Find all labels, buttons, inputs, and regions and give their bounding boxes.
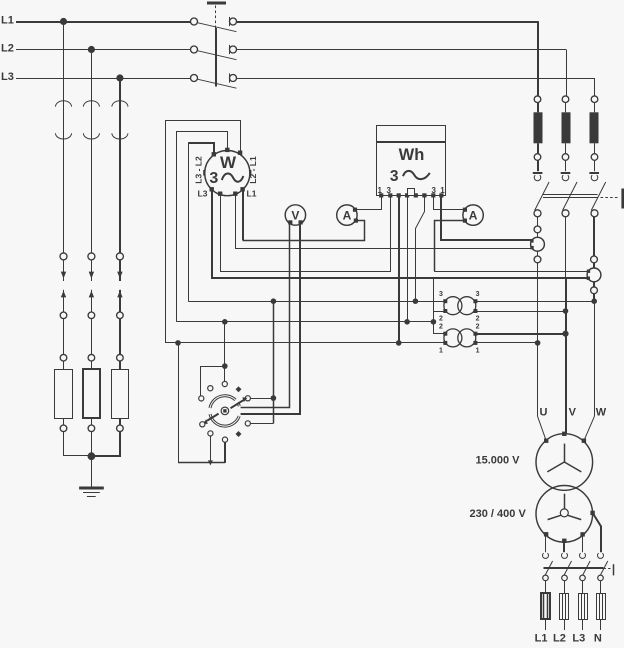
svg-text:2: 2 bbox=[476, 324, 480, 331]
svg-text:W: W bbox=[596, 407, 607, 419]
svg-text:230 / 400 V: 230 / 400 V bbox=[470, 508, 527, 520]
svg-text:L2: L2 bbox=[1, 42, 14, 54]
svg-text:L1: L1 bbox=[1, 14, 14, 26]
svg-text:L3: L3 bbox=[198, 188, 208, 198]
svg-text:2: 2 bbox=[476, 316, 480, 323]
svg-text:N: N bbox=[594, 633, 602, 645]
svg-text:3: 3 bbox=[476, 291, 480, 298]
svg-text:W: W bbox=[220, 153, 237, 172]
svg-text:Wh: Wh bbox=[399, 146, 425, 164]
svg-text:L3: L3 bbox=[572, 633, 585, 645]
svg-text:1: 1 bbox=[439, 348, 443, 355]
svg-text:3: 3 bbox=[386, 186, 391, 195]
svg-text:L1: L1 bbox=[535, 633, 548, 645]
svg-text:L2 - L1: L2 - L1 bbox=[248, 156, 258, 184]
svg-text:V: V bbox=[569, 407, 577, 419]
svg-text:1: 1 bbox=[377, 186, 382, 195]
svg-text:L3: L3 bbox=[1, 71, 14, 83]
svg-text:3: 3 bbox=[439, 291, 443, 298]
svg-text:L3 - L2: L3 - L2 bbox=[194, 156, 204, 184]
svg-text:L2: L2 bbox=[553, 633, 566, 645]
svg-text:3: 3 bbox=[431, 186, 436, 195]
svg-text:1: 1 bbox=[440, 186, 445, 195]
svg-text:V: V bbox=[291, 209, 299, 223]
svg-text:2: 2 bbox=[439, 316, 443, 323]
svg-text:3: 3 bbox=[209, 170, 218, 187]
svg-text:U: U bbox=[540, 407, 548, 419]
svg-text:A: A bbox=[343, 209, 352, 223]
svg-text:L1: L1 bbox=[247, 188, 257, 198]
svg-text:3: 3 bbox=[390, 168, 399, 185]
svg-text:1: 1 bbox=[476, 348, 480, 355]
svg-text:A: A bbox=[469, 209, 478, 223]
svg-text:15.000 V: 15.000 V bbox=[475, 454, 520, 466]
svg-text:2: 2 bbox=[439, 324, 443, 331]
